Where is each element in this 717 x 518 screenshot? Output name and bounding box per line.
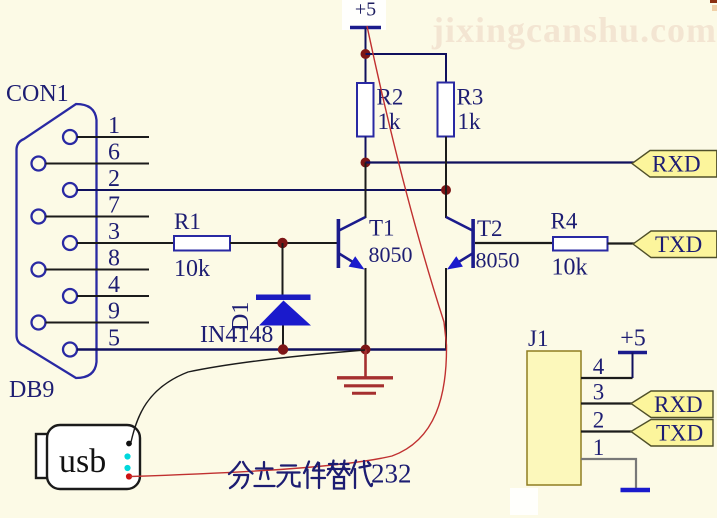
svg-text:9: 9: [108, 299, 120, 325]
wire R1 to T1 base: [230, 242, 338, 244]
node junction R2/RXD: [361, 158, 371, 168]
node junction R1/D1: [277, 238, 287, 248]
svg-text:6: 6: [108, 140, 120, 166]
net flag RXD (J1): [631, 391, 713, 418]
wire black usb to ground node: [131, 350, 365, 442]
svg-text:T2: T2: [477, 216, 503, 241]
wire T2 base to R4: [475, 242, 553, 244]
transistor T1 emitter slant: [339, 254, 361, 268]
svg-text:RXD: RXD: [652, 152, 701, 177]
pin 1 wire stub: [77, 136, 149, 138]
svg-text:CON1: CON1: [6, 81, 69, 107]
resistor R1: [174, 236, 230, 251]
svg-text:3: 3: [108, 219, 120, 245]
white patch near J1: [510, 488, 538, 515]
svg-text:TXD: TXD: [656, 421, 703, 446]
wire +5 to J1 pin4: [632, 353, 634, 379]
pin 2 circle: [63, 183, 77, 197]
transistor T2 emitter slant: [451, 254, 473, 268]
transistor T2 emitter arrow: [447, 256, 463, 269]
svg-text:7: 7: [108, 193, 120, 219]
annotation 分立元件替代232: [229, 461, 372, 489]
transistor T2 collector slant: [446, 217, 473, 231]
usb pin dot red: [126, 473, 132, 479]
power +5 bar symbol (J1): [618, 351, 647, 354]
pin 9 wire stub: [46, 322, 150, 324]
transistor T1 base bar: [337, 219, 341, 268]
ground symbol: [364, 350, 367, 378]
node junction D1/rail: [278, 344, 288, 354]
svg-text:T1: T1: [369, 216, 395, 241]
wire T1 collector: [365, 163, 367, 219]
svg-text:4: 4: [108, 272, 120, 298]
svg-text:DB9: DB9: [9, 377, 54, 403]
wire RXD net: [366, 161, 635, 163]
pin 7 wire stub: [46, 216, 150, 218]
svg-text:1k: 1k: [458, 109, 482, 134]
pin 4 wire stub: [77, 295, 149, 297]
wire R2 bottom: [365, 137, 367, 163]
watermark corner mark: [710, 0, 717, 3]
svg-text:3: 3: [593, 380, 605, 405]
svg-text:R1: R1: [174, 209, 201, 234]
pin 5 wire (bottom rail to T2 emitter): [77, 348, 446, 350]
pin 6 wire stub: [46, 163, 150, 165]
pin 1 circle: [63, 130, 77, 144]
svg-text:10k: 10k: [174, 256, 210, 282]
svg-text:jixingcanshu.com: jixingcanshu.com: [431, 10, 717, 50]
usb connector body: [36, 434, 52, 478]
J1 pin 4 wire: [581, 377, 633, 379]
connector J1 body: [527, 351, 581, 485]
net flag TXD (J1): [631, 420, 713, 447]
wire +5 node to R3: [366, 54, 447, 83]
resistor R4: [553, 237, 608, 251]
pin 9 circle: [32, 316, 46, 330]
net flag TXD (top): [633, 231, 717, 258]
pin 2 wire (to T2 collector): [77, 189, 446, 191]
svg-text:232: 232: [371, 459, 412, 489]
wire +5 to node: [365, 28, 367, 84]
svg-text:IN4148: IN4148: [200, 322, 273, 348]
svg-text:8050: 8050: [369, 242, 413, 267]
svg-text:10k: 10k: [552, 255, 588, 281]
diode D1 body: [259, 301, 311, 326]
resistor R3: [438, 83, 455, 137]
pin 7 circle: [32, 210, 46, 224]
usb pin dot cyan 1: [124, 453, 130, 459]
connector CON1 (DB9) shell: [17, 104, 97, 378]
pin 6 circle: [32, 157, 46, 171]
usb pin dot cyan 2: [124, 465, 130, 471]
svg-text:+5: +5: [355, 0, 376, 21]
wire T1 emitter: [365, 268, 367, 350]
svg-text:R3: R3: [457, 85, 484, 110]
J1 pin 1 wire: [581, 459, 636, 488]
svg-text:8: 8: [108, 246, 120, 272]
diode D1 cathode bar: [256, 295, 311, 301]
svg-text:R4: R4: [551, 209, 578, 234]
svg-text:TXD: TXD: [655, 232, 702, 257]
transistor T1 collector slant: [339, 217, 366, 231]
wire T2 collector: [445, 137, 447, 219]
J1 pin 2 wire: [581, 430, 632, 432]
svg-text:5: 5: [108, 326, 120, 352]
node junction pin2/T2 collector: [441, 185, 451, 195]
svg-text:8050: 8050: [476, 248, 520, 273]
svg-text:1: 1: [108, 113, 120, 139]
node junction T1 emitter/ground: [361, 345, 371, 355]
power +5 white patch: [342, 0, 386, 30]
wire D1 anode to rail: [282, 326, 284, 350]
usb pin dot black: [126, 441, 132, 447]
net flag RXD (top): [632, 151, 717, 178]
wire T2 emitter: [445, 268, 447, 350]
svg-text:2: 2: [108, 166, 120, 192]
resistor R2: [357, 83, 374, 137]
svg-text:RXD: RXD: [654, 392, 703, 417]
svg-text:2: 2: [593, 408, 605, 433]
svg-text:J1: J1: [528, 326, 548, 351]
transistor T1 emitter arrow: [349, 256, 365, 269]
pin 3 circle: [63, 236, 77, 250]
power +5 bar symbol (top): [350, 26, 381, 29]
ground bar symbol (J1 pin1): [621, 488, 651, 492]
pin 4 circle: [63, 289, 77, 303]
svg-text:usb: usb: [59, 443, 106, 480]
svg-text:+5: +5: [620, 326, 646, 352]
node junction +5: [361, 49, 371, 59]
wire red usb to +5: [130, 26, 447, 477]
wire R4 to TXD: [608, 242, 636, 244]
svg-text:4: 4: [593, 354, 605, 379]
transistor T2 base bar: [471, 219, 475, 268]
pin 5 circle: [63, 343, 77, 357]
pin 8 circle: [32, 263, 46, 277]
pin 3 wire to R1: [77, 242, 174, 244]
svg-text:1: 1: [593, 435, 605, 460]
wire D1 branch: [282, 243, 284, 295]
pin 8 wire stub: [46, 269, 150, 271]
J1 pin 3 wire: [581, 402, 632, 404]
